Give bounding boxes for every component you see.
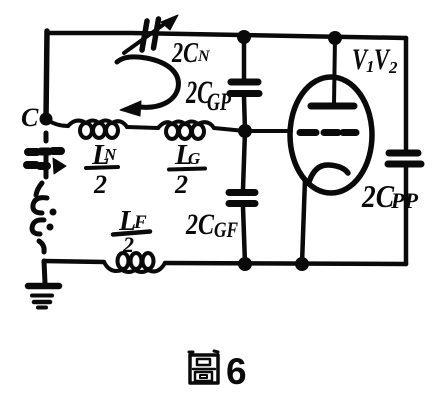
label 2CN — [171, 38, 211, 69]
ground: bar 4 — [38, 306, 46, 310]
capacitor 2CGF: top plate — [229, 189, 255, 196]
inductor LG/2: loop 2 — [179, 124, 191, 139]
node: junction dot bottom (cathode lead) — [295, 257, 309, 271]
caption glyph 圖: top small box — [197, 359, 210, 365]
capacitor 2CN (variable, in top bus): plate 1 — [142, 21, 147, 50]
inductor LN/2: loop 2 — [93, 123, 105, 138]
ground: bar 2 — [32, 294, 52, 298]
tube plate lead — [334, 38, 335, 104]
capacitor 2CGp: top plate — [231, 79, 258, 86]
svg-text:6: 6 — [226, 351, 247, 392]
tube grid dash 3 — [343, 129, 356, 136]
dashed branch: arrowhead mark — [53, 158, 66, 174]
wire: bottom horizontal bus — [44, 261, 406, 264]
label 2Cpp — [361, 178, 418, 214]
dashed branch: wire dash below node C — [44, 133, 49, 141]
svg-text:2: 2 — [174, 170, 188, 199]
capacitor 2CN: arrowhead — [161, 15, 178, 30]
dashed coil: dash 1 — [36, 183, 42, 195]
tube grid dash 1 — [300, 129, 316, 136]
caption glyph 圖: bottom box — [195, 372, 212, 381]
wire: middle bus from node C to coil LN — [46, 119, 68, 126]
caption glyph 圖: inner mark — [200, 375, 207, 378]
label 2CGp — [185, 75, 231, 116]
ground: bar 1 — [28, 283, 59, 290]
dashed coil: loop 2 (scribble) — [32, 220, 44, 234]
svg-text:2C: 2C — [171, 38, 198, 69]
inductor LN/2: loop 1 — [80, 123, 92, 138]
capacitor 2Cpp: top plate — [389, 150, 418, 157]
svg-text:2C: 2C — [185, 208, 215, 241]
label V1V2 — [352, 43, 398, 77]
annotation arrow 2CGp (feedback arc) — [117, 57, 178, 108]
svg-text:2: 2 — [388, 58, 398, 77]
capacitor 2CN: arrow shaft — [124, 22, 167, 53]
label C — [21, 103, 39, 132]
wire: right vertical lower (2Cpp down to bottom bus) — [404, 167, 409, 264]
dashed branch: capacitor bottom plate (dashed) — [27, 165, 47, 166]
inductor LN/2: arch — [68, 121, 127, 128]
svg-text:G: G — [188, 149, 201, 168]
svg-text:C: C — [21, 103, 39, 132]
caption glyph 圖: outer box — [190, 355, 218, 383]
svg-text:PP: PP — [390, 188, 419, 213]
inductor LF/2: loop 1 — [118, 253, 129, 269]
capacitor 2CGp: bottom plate — [230, 90, 259, 97]
inductor LF/2: loop 3 — [143, 253, 154, 269]
wire: middle bus between coils — [127, 127, 158, 128]
inductor LG/2: loop 1 — [166, 124, 178, 139]
label LN/2 fraction — [91, 139, 117, 199]
dashed coil: dash 2 — [39, 241, 44, 252]
capacitor 2CN: plate 2 — [154, 19, 159, 48]
wire: center vertical from middle bus to 2CGF — [243, 131, 245, 189]
wire: middle bus from coil LG to grid junction — [214, 128, 245, 131]
node C: junction dot — [40, 113, 53, 126]
svg-text:N: N — [197, 48, 211, 65]
tube grid dash 2 — [324, 129, 338, 136]
inductor LG/2: arch — [158, 122, 214, 129]
capacitor 2CGF: bottom plate — [229, 200, 255, 207]
tube plate bar — [311, 103, 354, 110]
label LF/2 fraction — [118, 206, 147, 257]
annotation arrow 2CGp: arrowhead — [120, 101, 141, 116]
svg-text:N: N — [103, 145, 117, 164]
label 2CGF — [185, 208, 238, 242]
svg-text:GF: GF — [214, 217, 238, 242]
dashed coil: dot 1 — [50, 209, 57, 216]
svg-text:2: 2 — [93, 170, 107, 199]
inductor LN/2: loop 3 — [106, 123, 118, 138]
caption text 6 — [226, 351, 247, 392]
inductor LF/2: bowl — [104, 262, 165, 272]
inductor LG/2: loop 3 — [192, 124, 204, 139]
inductor LF/2: loop 2 — [131, 253, 142, 269]
label LG/2 fraction — [174, 139, 201, 199]
capacitor 2Cpp: bottom plate — [388, 161, 421, 168]
node: junction dot middle (grid branch) — [238, 124, 252, 138]
ground: stem — [44, 261, 45, 283]
dashed coil: dot 2 — [47, 224, 54, 231]
tube cathode arch — [309, 165, 348, 182]
wire: right vertical upper (top-right corner down to 2Cpp) — [404, 38, 409, 150]
dashed coil: loop 1 (scribble) — [33, 198, 47, 213]
node: junction dot bottom center — [238, 257, 252, 271]
caption glyph 圖: middle bar — [193, 368, 215, 371]
svg-text:2C: 2C — [361, 178, 394, 214]
dashed branch below node C: capacitor top plate (dashed) — [28, 151, 61, 152]
ground: bar 3 — [34, 300, 50, 305]
wire: top horizontal bus — [47, 33, 406, 38]
wire: middle bus from junction into tube grid — [245, 129, 291, 133]
node: junction dot top at plate of 2CGp branch — [237, 30, 251, 44]
wire: center vertical from 2CGF to bottom bus — [243, 207, 245, 264]
wire: left vertical (top-left corner down to node C) — [46, 31, 47, 119]
node: junction dot top right (plate lead) — [328, 31, 342, 45]
tube cathode lead — [302, 179, 305, 264]
vacuum tube V1V2: envelope — [290, 77, 372, 193]
wire: center vertical from top bus to 2CGp capacitor — [242, 37, 247, 80]
wire: center vertical from 2CGp cap to middle bus — [244, 97, 245, 131]
dashed branch: capacitor stem — [44, 156, 49, 177]
